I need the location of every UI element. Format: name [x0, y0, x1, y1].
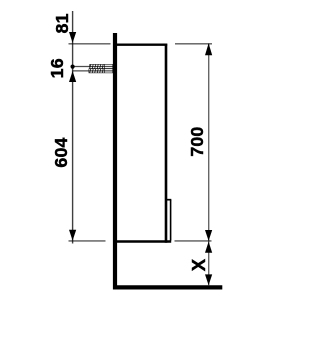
svg-text:81: 81 — [52, 13, 72, 33]
svg-text:604: 604 — [51, 137, 71, 167]
extension line top-right — [175, 43, 212, 45]
screw lower — [89, 69, 113, 73]
cabinet door lip top — [167, 199, 171, 201]
arrow X down — [205, 274, 212, 285]
wall and floor L-outline — [115, 33, 222, 287]
svg-text:16: 16 — [47, 58, 67, 78]
arrow X up — [205, 242, 212, 253]
arrow 700 up — [205, 43, 212, 55]
left dimension line — [72, 11, 74, 244]
cabinet top edge — [115, 44, 167, 46]
screw centerline upper — [73, 66, 113, 68]
right dimension line — [208, 44, 210, 286]
svg-text:700: 700 — [187, 127, 207, 157]
extension line bottom-left — [69, 240, 106, 242]
cabinet bottom edge — [117, 240, 171, 243]
dot marker at upper screw — [71, 65, 75, 69]
screw upper — [90, 64, 113, 68]
arrow 700 down — [205, 230, 212, 241]
arrow 604 down — [69, 230, 76, 241]
screw centerline lower — [73, 70, 113, 72]
extension line top-left — [69, 43, 111, 45]
cabinet front edge — [165, 44, 168, 243]
arrow 81 down — [69, 32, 76, 43]
svg-text:X: X — [188, 258, 209, 271]
cabinet door lip front — [170, 200, 172, 241]
extension line mid-right — [175, 240, 212, 242]
arrow 16 up — [69, 71, 76, 82]
